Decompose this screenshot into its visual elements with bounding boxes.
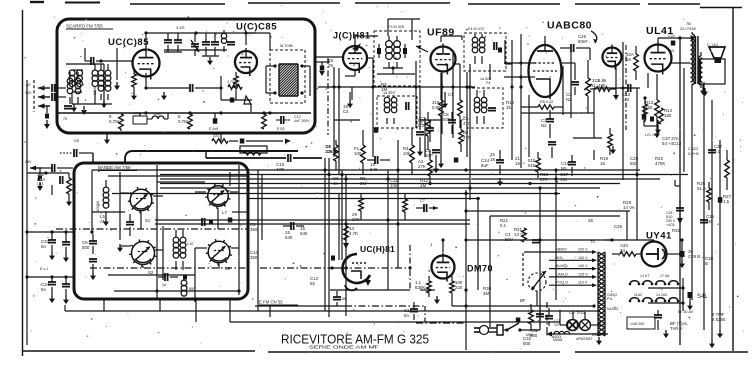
V1 top caps — [164, 39, 172, 41]
svg-text:AM: AM — [25, 160, 31, 164]
svg-text:26: 26 — [588, 218, 593, 223]
svg-text:50nF: 50nF — [578, 39, 588, 44]
right vertical w5 — [622, 42, 624, 180]
pilot lamps — [567, 320, 578, 331]
AM box vertical wires — [91, 170, 93, 234]
V6 plate wire — [657, 38, 659, 42]
switch wires — [648, 287, 683, 289]
svg-text:LAALO: LAALO — [556, 272, 568, 276]
svg-text:UC(C)85: UC(C)85 — [108, 37, 149, 48]
mid res pair — [359, 198, 364, 211]
svg-text:160 V: 160 V — [578, 256, 588, 260]
lamp wires — [560, 324, 566, 326]
svg-text:L7: L7 — [222, 210, 227, 215]
bus junction dots — [340, 173, 343, 176]
V6 screen — [659, 108, 664, 124]
tube V2 U(C)C85 — [235, 51, 257, 73]
svg-text:TAR A: TAR A — [670, 326, 682, 331]
svg-text:SCARPO FM 7/55: SCARPO FM 7/55 — [66, 24, 103, 29]
svg-text:1M: 1M — [420, 183, 426, 188]
svg-text:5n: 5n — [41, 287, 46, 292]
AM box gnd — [119, 244, 121, 249]
svg-text:8uF: 8uF — [481, 163, 489, 168]
box1 left cap — [64, 105, 72, 107]
AM IF coil mid — [173, 237, 179, 243]
svg-text:10n: 10n — [560, 177, 568, 182]
svg-text:U(C)C85: U(C)C85 — [236, 22, 277, 33]
V8 gnd — [436, 296, 438, 301]
left res 300 — [67, 178, 72, 194]
svg-text:E FM CN 55: E FM CN 55 — [259, 300, 283, 305]
FM IF transformer — [278, 63, 280, 65]
svg-text:50: 50 — [310, 281, 315, 286]
AM box bottom cap — [164, 273, 166, 281]
svg-text:51K: 51K — [528, 163, 536, 168]
V8 left R — [427, 281, 432, 293]
mid bsq — [228, 218, 233, 223]
switch row 2 — [630, 298, 639, 300]
box1 grounds — [116, 85, 118, 87]
extra verticals mid — [351, 87, 353, 100]
mid parts right — [522, 228, 527, 242]
svg-text:L21 1C: L21 1C — [645, 133, 657, 137]
V6 input cap — [627, 84, 629, 92]
right vertical w2 — [703, 82, 705, 330]
output transformer core — [695, 36, 697, 84]
psu caps C31 — [536, 313, 544, 315]
bus wire b1 — [160, 169, 640, 171]
mid ground — [106, 133, 108, 136]
HT horizontal wires — [466, 210, 630, 212]
svg-text:C25: C25 — [614, 224, 623, 229]
cap C24 top right — [671, 41, 676, 46]
svg-text:1/4A 250: 1/4A 250 — [630, 322, 644, 326]
UY41 anode R33 — [620, 252, 636, 257]
tube V5 UABC80 — [529, 45, 562, 97]
svg-text:3 4/5: 3 4/5 — [176, 26, 184, 30]
svg-text:27K: 27K — [352, 217, 360, 222]
V5 detector caps — [562, 62, 575, 64]
svg-text:1a 525: 1a 525 — [480, 77, 491, 81]
wire V3 plate — [354, 36, 356, 43]
svg-text:APASSAT: APASSAT — [576, 337, 593, 341]
svg-text:E o.1: E o.1 — [40, 267, 48, 271]
psu res — [529, 310, 534, 324]
svg-text:50P: 50P — [425, 153, 433, 158]
V1-V2 coupling — [146, 87, 190, 89]
svg-text:4n: 4n — [333, 181, 338, 186]
bottom cap — [410, 308, 418, 310]
svg-text:47R: 47R — [259, 131, 266, 135]
bus wire b3 — [160, 178, 660, 180]
V5b cathode R — [596, 87, 610, 92]
box2 gang connection wires — [120, 192, 129, 194]
svg-text:DM70: DM70 — [467, 264, 493, 274]
V6 cathode cap — [642, 114, 647, 120]
selector feed wires — [522, 253, 524, 287]
V6 grid R — [634, 54, 639, 71]
osc resistor — [228, 85, 242, 90]
V6 cathode R13 — [655, 100, 660, 116]
scan speckle noise — [258, 57, 259, 58]
tube V3 J(C)H81 — [343, 46, 367, 70]
bus cap E4x6 — [213, 118, 218, 124]
bottom left wires — [64, 305, 66, 311]
mid small parts — [454, 158, 459, 163]
tap selector — [528, 273, 546, 291]
svg-text:C 522: C 522 — [688, 147, 698, 151]
svg-text:POQ.O: POQ.O — [556, 281, 568, 285]
FM box bottom bus — [58, 112, 311, 114]
svg-text:M 7038: M 7038 — [280, 44, 293, 48]
svg-text:S4L: S4L — [697, 294, 708, 300]
svg-text:540: 540 — [285, 235, 293, 240]
svg-text:L27 TEDA: L27 TEDA — [569, 311, 586, 315]
IF transformer Z3 — [472, 37, 478, 43]
svg-text:47n: 47n — [463, 121, 471, 126]
svg-text:+4C8: +4C8 — [666, 223, 675, 227]
V3 plate arrow — [352, 43, 361, 51]
svg-text:4 5255: 4 5255 — [712, 317, 726, 322]
svg-text:500: 500 — [523, 341, 531, 346]
svg-text:1000: 1000 — [153, 112, 161, 116]
svg-text:UABC80: UABC80 — [547, 20, 592, 32]
bus wire b4 — [160, 183, 620, 185]
svg-text:1/2: 1/2 — [554, 323, 559, 327]
V2 input caps — [202, 41, 210, 43]
V4 cathode — [440, 73, 442, 100]
svg-text:220 V: 220 V — [578, 248, 588, 252]
svg-text:NA3AO: NA3AO — [607, 307, 619, 311]
bottom wire w3 — [255, 305, 345, 307]
svg-text:F4 M 472: F4 M 472 — [468, 27, 484, 31]
V3 caps — [374, 127, 379, 133]
FM IF wires — [302, 65, 310, 67]
AM tuner enclosure box — [74, 163, 248, 299]
V5 bus hwires — [521, 112, 594, 114]
pilot lamps — [568, 320, 579, 331]
tube V6 UL41 — [645, 45, 672, 72]
V1 input coil 1000 — [98, 70, 104, 76]
V1 trimmer — [191, 40, 199, 52]
box1 mid wire — [164, 49, 227, 51]
svg-text:50V: 50V — [505, 237, 513, 242]
AM gang line row2 — [90, 267, 248, 269]
svg-text:K5: K5 — [670, 49, 674, 53]
svg-text:10k: 10k — [403, 151, 411, 156]
SAL load — [688, 292, 693, 298]
IF Z1 bottom wires — [392, 68, 394, 74]
FM gang dash line — [327, 58, 329, 135]
bus wire b5 — [160, 187, 600, 189]
svg-text:1K: 1K — [626, 57, 631, 62]
V1 cathode parts — [145, 73, 147, 88]
left wires to AM box — [27, 231, 74, 233]
AM box horiz wires — [92, 169, 239, 171]
svg-text:600: 600 — [189, 287, 195, 291]
right mid dots — [621, 86, 624, 89]
right res — [725, 160, 730, 178]
heater cap — [654, 314, 662, 316]
AM antenna input — [30, 167, 42, 169]
V5b gnd — [615, 67, 617, 91]
svg-text:F4: F4 — [486, 81, 490, 85]
bottom wire w2 — [230, 321, 560, 323]
svg-text:S2: S2 — [148, 270, 154, 275]
bus wire b7 — [248, 198, 480, 200]
IF transformer Z4 — [474, 97, 480, 103]
svg-text:L10: L10 — [187, 242, 193, 246]
page border left — [22, 10, 24, 356]
svg-text:0.22: 0.22 — [418, 123, 427, 128]
svg-text:P1L: P1L — [607, 297, 613, 301]
V2 plate wire — [245, 33, 247, 45]
mains plug — [480, 326, 489, 335]
input filter — [38, 176, 42, 181]
UY41 output — [667, 253, 678, 255]
right vertical w3 — [711, 100, 713, 340]
bus resistor C — [262, 114, 267, 129]
V4 screen parts — [453, 63, 460, 65]
svg-text:350: 350 — [250, 227, 258, 232]
svg-text:27K: 27K — [540, 177, 548, 182]
right caps — [708, 149, 716, 151]
svg-text:350: 350 — [250, 255, 258, 260]
svg-text:600Ω: 600Ω — [552, 335, 561, 339]
svg-text:L9: L9 — [225, 266, 230, 271]
antenna matching caps — [51, 84, 53, 92]
svg-text:N2: N2 — [541, 123, 547, 128]
svg-text:22=7038: 22=7038 — [680, 26, 696, 31]
svg-text:6002: 6002 — [592, 332, 602, 337]
svg-text:R5 0.22: R5 0.22 — [540, 100, 553, 104]
V1 grid cap — [90, 57, 92, 65]
svg-text:1M: 1M — [506, 105, 512, 110]
V3 input wire y57 — [315, 56, 343, 58]
V3 plate R — [410, 145, 415, 163]
output transformer secondary — [699, 56, 701, 85]
svg-text:E B2: E B2 — [277, 127, 285, 131]
V8 right R — [450, 281, 455, 293]
V5 volume pot — [586, 78, 591, 96]
svg-text:54 +4C13: 54 +4C13 — [662, 141, 682, 146]
svg-text:AM: AM — [100, 219, 107, 224]
svg-text:14 2A2: 14 2A2 — [656, 293, 667, 297]
V3 gnd arrows — [349, 92, 351, 100]
svg-text:0.65: 0.65 — [432, 105, 441, 110]
svg-text:540: 540 — [370, 167, 378, 172]
svg-text:1K: 1K — [600, 161, 605, 166]
antenna coil L2 — [92, 70, 98, 76]
svg-text:14 VA: 14 VA — [623, 205, 635, 210]
svg-text:UC(H)81: UC(H)81 — [360, 244, 395, 254]
mid cap 15-540 — [290, 222, 292, 230]
mid cap C15 — [374, 156, 376, 164]
right vertical w4 — [719, 140, 721, 330]
coupling wires antenna — [57, 87, 66, 89]
svg-text:140 V: 140 V — [578, 264, 588, 268]
gnd transformer out — [704, 88, 706, 93]
svg-text:3M: 3M — [483, 291, 489, 296]
AVC cluster under box1 — [212, 139, 228, 144]
svg-text:C29 B: C29 B — [688, 254, 700, 259]
switch row 1 — [630, 281, 639, 283]
fuse box — [627, 317, 655, 329]
svg-text:100: 100 — [354, 151, 362, 156]
V8 wires — [442, 240, 444, 252]
svg-text:150: 150 — [664, 113, 672, 118]
FM antenna terminals — [38, 87, 50, 89]
svg-text:5M: 5M — [706, 219, 712, 224]
V5 plate out cap C26 — [544, 36, 546, 41]
V3 bus wires — [318, 86, 475, 88]
power transformer winding chain — [598, 252, 605, 256]
svg-text:1K: 1K — [490, 157, 495, 162]
IF transformer Z1 — [386, 41, 393, 48]
svg-text:51 A: 51 A — [697, 186, 706, 191]
AM gang C — [132, 242, 155, 265]
svg-text:4.7K: 4.7K — [349, 231, 358, 236]
svg-text:R31: R31 — [672, 228, 681, 233]
tube V4 UF89 — [431, 47, 456, 72]
svg-text:14 VA: 14 VA — [514, 232, 526, 237]
bus verticals mid — [334, 87, 336, 170]
svg-text:AOL: AOL — [556, 256, 563, 260]
svg-text:6: 6 — [395, 56, 398, 61]
IF transformer Z3 frame — [464, 33, 506, 71]
V9 top resistor — [344, 226, 349, 240]
svg-text:4 7313: 4 7313 — [227, 80, 238, 84]
svg-text:5n: 5n — [404, 313, 409, 318]
svg-text:1M: 1M — [381, 87, 387, 92]
wire left vertical — [26, 80, 28, 345]
svg-text:1n: 1n — [162, 283, 166, 287]
svg-text:L33: L33 — [37, 182, 43, 186]
tube V9 UC(H)81 — [343, 254, 370, 283]
page border bottom — [22, 350, 255, 352]
svg-text:F3 M 325: F3 M 325 — [388, 25, 404, 29]
bus wire top — [125, 151, 133, 163]
heater bottom wire — [546, 333, 608, 335]
V4 agc — [419, 87, 421, 130]
svg-text:Ω: Ω — [592, 83, 596, 88]
bus wire b6 — [112, 193, 560, 195]
V8 bottom wire — [451, 299, 453, 306]
svg-text:48h: 48h — [598, 83, 606, 88]
mains voltage taps — [549, 251, 593, 253]
bottom wire w1 — [329, 268, 331, 290]
svg-text:M: 30 AV: M: 30 AV — [678, 310, 694, 314]
svg-text:1: 1 — [430, 242, 433, 247]
svg-text:4uF 300V: 4uF 300V — [294, 119, 310, 123]
svg-text:NERO: NERO — [556, 248, 567, 252]
svg-text:50n: 50n — [630, 161, 638, 166]
left lower caps C33 — [48, 239, 56, 241]
svg-text:1K: 1K — [515, 161, 520, 166]
AM gang B — [208, 186, 229, 207]
box1 top wire — [146, 32, 256, 34]
AM box caps mid — [126, 221, 134, 223]
svg-text:0.7M: 0.7M — [178, 119, 188, 124]
mains switch — [507, 323, 519, 330]
svg-text:C4: C4 — [343, 109, 349, 114]
svg-text:14 K7: 14 K7 — [640, 274, 649, 278]
mains wires — [539, 312, 541, 330]
svg-text:BANDE AM 7/58: BANDE AM 7/58 — [98, 165, 131, 170]
IF transformer Z1 frame — [374, 31, 420, 86]
svg-text:27K: 27K — [418, 164, 426, 169]
junction dots extra — [344, 222, 347, 225]
AM gang D — [208, 241, 230, 263]
AM gang A — [130, 189, 152, 211]
svg-text:10n: 10n — [390, 183, 398, 188]
V4 bus — [469, 64, 471, 87]
svg-text:2M: 2M — [360, 181, 366, 186]
svg-text:540: 540 — [300, 231, 308, 236]
svg-text:T5: T5 — [590, 239, 595, 244]
svg-text:5n: 5n — [41, 244, 46, 249]
AM coil bottom — [181, 280, 187, 286]
IF Z1 top rail — [388, 18, 420, 20]
page border right — [732, 8, 734, 352]
svg-text:1.5: 1.5 — [723, 199, 730, 204]
V5 lower parts — [608, 134, 613, 148]
V9 input wires — [330, 267, 344, 269]
V4 plate wire — [440, 36, 442, 42]
thick AVC wire — [206, 157, 286, 159]
svg-text:50F: 50F — [443, 117, 451, 122]
svg-text:500: 500 — [82, 245, 90, 250]
svg-text:SERIE ONDE AM MF: SERIE ONDE AM MF — [309, 345, 379, 350]
svg-text:110 V: 110 V — [578, 281, 588, 285]
svg-text:300: 300 — [25, 91, 31, 95]
svg-text:25: 25 — [328, 63, 333, 68]
B+ rail right — [679, 38, 681, 345]
tube V1 UC(C)85 — [133, 50, 160, 77]
svg-text:47R: 47R — [463, 135, 471, 140]
tube V8 DM70 — [432, 256, 455, 279]
UY41 plate wire — [605, 239, 654, 241]
svg-text:S1: S1 — [145, 218, 151, 223]
bus wire b2 — [160, 174, 688, 176]
long vertical bundle — [324, 158, 326, 311]
svg-text:BF: BF — [520, 298, 526, 303]
tube V5b UABC80 small triode — [603, 48, 622, 67]
osc coil V2 — [221, 33, 226, 38]
svg-text:17 0A: 17 0A — [660, 274, 670, 278]
IF transformer Z2 frame — [377, 96, 417, 128]
V3 input from FM box — [315, 61, 330, 63]
svg-text:ALMQL: ALMQL — [556, 264, 569, 268]
V4 input wire — [416, 46, 428, 52]
svg-text:C7: C7 — [420, 199, 425, 203]
V5b dash shield — [625, 45, 627, 130]
svg-text:75: 75 — [63, 117, 67, 121]
bus wire lower1 — [155, 219, 470, 221]
bus resistor B — [188, 114, 193, 129]
antenna coil L1 — [69, 70, 75, 76]
svg-text:223: 223 — [213, 134, 219, 138]
IF transformer Z2 — [384, 97, 390, 103]
V1 input coil 2 — [67, 78, 73, 84]
psu transformer right taps — [605, 287, 628, 289]
tube V7 UY41 — [642, 242, 667, 267]
agc dash wire — [338, 194, 340, 261]
svg-text:220: 220 — [455, 285, 463, 290]
svg-text:0.1: 0.1 — [500, 223, 507, 228]
svg-text:1000: 1000 — [92, 85, 97, 95]
svg-text:22k: 22k — [325, 149, 333, 154]
